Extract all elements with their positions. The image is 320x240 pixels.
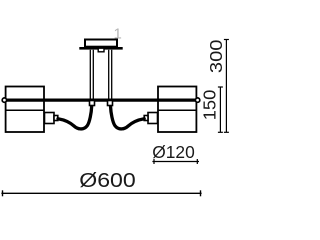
left socket (45, 113, 58, 124)
canopy box (85, 40, 117, 47)
left rod (90, 50, 93, 100)
dimension line D600 (1, 190, 201, 196)
bar right end knob (195, 98, 199, 102)
bar (4, 98, 197, 101)
dimension line D120 (152, 159, 199, 164)
right arm (111, 106, 145, 129)
canopy flange (79, 47, 122, 50)
left collar (90, 101, 95, 106)
svg-text:300: 300 (206, 39, 226, 73)
dimension line 150 (218, 87, 223, 132)
dimension line 300 (224, 40, 229, 133)
right collar (108, 101, 113, 106)
canopy notch (98, 48, 104, 52)
svg-text:1: 1 (114, 26, 122, 43)
svg-text:Ø600: Ø600 (79, 170, 136, 192)
right socket (144, 113, 157, 124)
right shade (158, 87, 196, 133)
left arm (58, 106, 92, 129)
svg-text:150: 150 (200, 89, 220, 120)
right shade inner line (158, 109, 196, 111)
left shade inner line (6, 109, 44, 111)
right rod (109, 50, 112, 100)
bar left end knob (2, 98, 6, 102)
left shade (6, 87, 44, 133)
svg-text:Ø120: Ø120 (152, 142, 195, 162)
